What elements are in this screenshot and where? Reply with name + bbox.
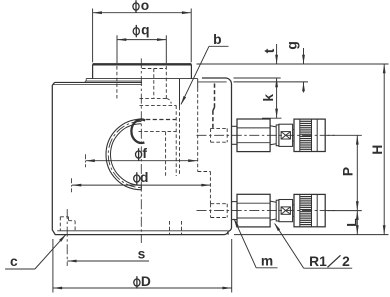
taper neck: [270, 126, 276, 127]
hidden port in body: [211, 203, 228, 205]
t reference extension: [234, 77, 281, 79]
label b leader: [209, 45, 229, 47]
dim k: [276, 78, 278, 118]
dim P extension upper: [328, 134, 362, 136]
taper ring: [276, 200, 279, 221]
handle arc outer: [106, 119, 141, 190]
dim g: [303, 48, 305, 64]
barrel section lines: [299, 119, 301, 151]
c plug hidden outline: [59, 217, 61, 231]
svg-text:k: k: [261, 94, 276, 102]
svg-text:c: c: [10, 254, 18, 269]
body outline: [52, 82, 228, 234]
hidden port in body: [211, 127, 228, 129]
hidden ref phi f right: [197, 88, 199, 171]
taper neck: [270, 201, 276, 202]
k reference extension (hex top): [262, 117, 282, 119]
hidden line y131: [139, 130, 177, 132]
body top right lower line: [198, 81, 227, 83]
valve cross square: [281, 207, 290, 214]
bottom groove line: [57, 230, 228, 232]
barrel section lines: [299, 194, 301, 226]
body top surface right: [202, 77, 226, 79]
svg-text:D: D: [141, 274, 151, 289]
handle arc pitch (dash-dot): [108, 121, 141, 187]
groove edge b (solid part): [179, 79, 181, 107]
coupler barrel: [294, 194, 325, 226]
dim phi-d left extension: [71, 178, 73, 192]
plate bottom flange line 1: [86, 78, 198, 80]
plate left edge: [92, 64, 94, 78]
dim phi-f left extension: [85, 154, 87, 167]
dim phi-q label: [133, 28, 139, 35]
hex flats: [237, 127, 270, 129]
step at x=197.7: [197, 79, 199, 89]
label m leader: [256, 267, 277, 269]
hidden bore left (phi q): [116, 66, 118, 98]
svg-text:o: o: [141, 0, 149, 13]
hidden slot left: [165, 132, 167, 176]
dim phi-q extension lines: [116, 35, 118, 63]
svg-text:m: m: [261, 253, 273, 268]
c plug centerline: [66, 209, 68, 266]
fitting hex body: [237, 194, 270, 227]
g reference extension: [234, 81, 309, 83]
svg-text:R1: R1: [309, 254, 327, 269]
hidden bore right (phi q): [165, 66, 167, 98]
svg-text:2: 2: [342, 254, 350, 269]
hidden slot right: [175, 105, 177, 176]
dim phi-o extension lines: [92, 9, 94, 63]
dim phi-o label: [133, 3, 139, 10]
svg-text:P: P: [341, 167, 356, 176]
body right edge: [226, 78, 232, 231]
hidden bottom lines: [169, 221, 171, 234]
svg-text:f: f: [142, 146, 147, 161]
label c leader: [5, 268, 35, 270]
dim H: [383, 64, 385, 235]
valve outer box: [279, 200, 293, 222]
thread rungs: [300, 196, 312, 198]
dim phi-q line: [117, 39, 166, 41]
svg-text:d: d: [140, 170, 148, 185]
svg-text:L: L: [345, 218, 360, 226]
connector piece: [293, 129, 294, 131]
valve outer box: [279, 124, 293, 146]
dim phi-f: [86, 160, 198, 162]
connector piece: [293, 204, 294, 206]
hidden recess floor B: [140, 104, 177, 106]
hidden jog: [198, 171, 211, 173]
top plate extension line (H/t/g datum): [197, 63, 389, 65]
thread rungs: [300, 120, 312, 122]
coupler barrel: [294, 119, 325, 151]
handle arc inner: [110, 124, 141, 186]
flange step verticals: [85, 79, 87, 81]
dim t: [276, 44, 278, 64]
dim L: [356, 211, 358, 235]
body top edge left: [55, 81, 142, 83]
dim phi-d: [72, 184, 211, 186]
dim P extension lower: [328, 210, 362, 212]
upper port centerline: [197, 134, 336, 136]
dim phi-D extension lines: [52, 239, 54, 293]
body top edge second line: [53, 84, 142, 86]
hidden bold drill: [214, 84, 216, 108]
fitting entry step: [232, 202, 238, 220]
handle arc end cap: [140, 185, 142, 190]
main vertical centerline: [140, 58, 142, 243]
plate bottom flange line 2: [85, 80, 142, 82]
hidden recess fillet: [166, 98, 171, 103]
handle boss bold semicircle: [131, 120, 145, 143]
hidden pocket top: [142, 68, 166, 70]
fitting hex body: [237, 119, 270, 152]
lower port centerline: [197, 210, 336, 212]
label R1/2 leader: [304, 267, 353, 269]
dim P: [356, 135, 358, 210]
svg-text:g: g: [285, 41, 300, 49]
hidden chamber top: [140, 119, 177, 121]
valve cross square: [281, 132, 290, 139]
svg-text:q: q: [141, 23, 149, 38]
bottom extension for H: [234, 234, 389, 236]
plate right edge: [190, 64, 192, 78]
svg-text:t: t: [262, 48, 277, 53]
groove edge b hidden continuation: [179, 107, 181, 177]
top plate (dia o) bold top edge: [93, 63, 192, 65]
hex flats: [237, 202, 270, 204]
taper ring: [276, 125, 279, 146]
dim phi-D: [53, 287, 232, 289]
dim s: [67, 260, 149, 262]
svg-text:H: H: [370, 145, 385, 155]
hidden recess floor A: [140, 97, 167, 99]
hidden pocket vertical: [153, 69, 155, 99]
svg-text:b: b: [213, 32, 221, 47]
hidden ref phi d right: [209, 172, 211, 204]
svg-text:s: s: [138, 247, 146, 262]
dim phi-o line: [93, 12, 192, 14]
fitting entry step: [232, 126, 238, 144]
